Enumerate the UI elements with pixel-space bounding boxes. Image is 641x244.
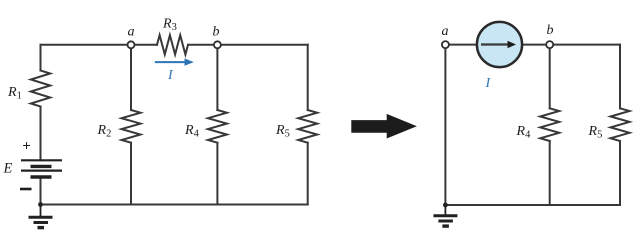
- resistor R4 (left circuit): [208, 110, 227, 143]
- resistor R5 (right circuit): [611, 108, 630, 141]
- ground (right circuit): [433, 205, 457, 226]
- wire: left edge between R1 and battery: [40, 107, 42, 161]
- node a (left circuit): [128, 41, 135, 48]
- resistor R1: [31, 71, 50, 107]
- svg-text:b: b: [213, 25, 220, 40]
- big arrow (between circuits): [351, 114, 417, 139]
- svg-text:R4: R4: [184, 123, 200, 140]
- wire: left edge upper segment: [40, 45, 42, 71]
- wire: right edge lower (right circuit): [619, 141, 621, 205]
- svg-text:I: I: [167, 68, 174, 83]
- node a (right circuit): [442, 41, 449, 48]
- svg-text:R1: R1: [7, 85, 22, 102]
- resistor R3: [157, 35, 188, 54]
- svg-text:R5: R5: [275, 123, 290, 140]
- wire: R2 branch lower: [130, 143, 132, 205]
- node b (right circuit): [546, 41, 553, 48]
- label - (battery negative): [20, 188, 32, 191]
- svg-text:E: E: [3, 161, 13, 177]
- svg-text:R3: R3: [162, 17, 177, 34]
- wire: right edge upper (left circuit): [307, 45, 309, 110]
- wire: R4 branch upper (right circuit): [549, 45, 551, 109]
- wire: left circuit bottom wire: [41, 204, 308, 206]
- resistor R5 (left circuit): [298, 110, 317, 143]
- wire: R2 branch: [130, 45, 132, 110]
- svg-text:R2: R2: [97, 123, 112, 140]
- wire: left circuit top wire (corner to R3 start): [41, 44, 158, 46]
- wire: left edge (right circuit): [444, 45, 446, 205]
- svg-text:R5: R5: [588, 124, 603, 141]
- wire: left edge below battery: [40, 177, 42, 205]
- current arrow I (blue, under R3): [155, 58, 194, 65]
- wire: node a to current source: [445, 44, 476, 46]
- wire: R4 branch (left circuit): [216, 45, 218, 110]
- battery E: [21, 160, 62, 177]
- node b (left circuit): [214, 41, 221, 48]
- current source I: [477, 22, 522, 67]
- wire: R4 branch lower (left circuit): [216, 143, 218, 205]
- wire: right edge lower (left circuit): [307, 143, 309, 205]
- junction dot (left circuit ground node): [38, 202, 43, 207]
- svg-text:a: a: [442, 24, 449, 39]
- svg-text:I: I: [485, 76, 492, 91]
- right circuit wires: [445, 45, 629, 205]
- wire: current source to node b, then to top-right corner: [523, 44, 621, 46]
- current source arrow: [481, 41, 516, 48]
- resistor R4 (right circuit): [540, 108, 559, 141]
- ground (left circuit): [29, 205, 53, 228]
- resistor R2: [122, 110, 141, 143]
- wire: bottom wire (right circuit): [445, 204, 620, 206]
- svg-text:+: +: [22, 139, 31, 155]
- wire: R4 branch lower (right circuit): [549, 141, 551, 205]
- svg-text:a: a: [128, 25, 135, 40]
- svg-text:b: b: [547, 23, 554, 38]
- wire: left circuit top wire (R3 end to top-right corner): [188, 44, 308, 46]
- junction dot (right circuit ground node): [443, 203, 448, 208]
- wire: right edge upper (right circuit): [619, 45, 621, 109]
- svg-text:R4: R4: [516, 124, 532, 141]
